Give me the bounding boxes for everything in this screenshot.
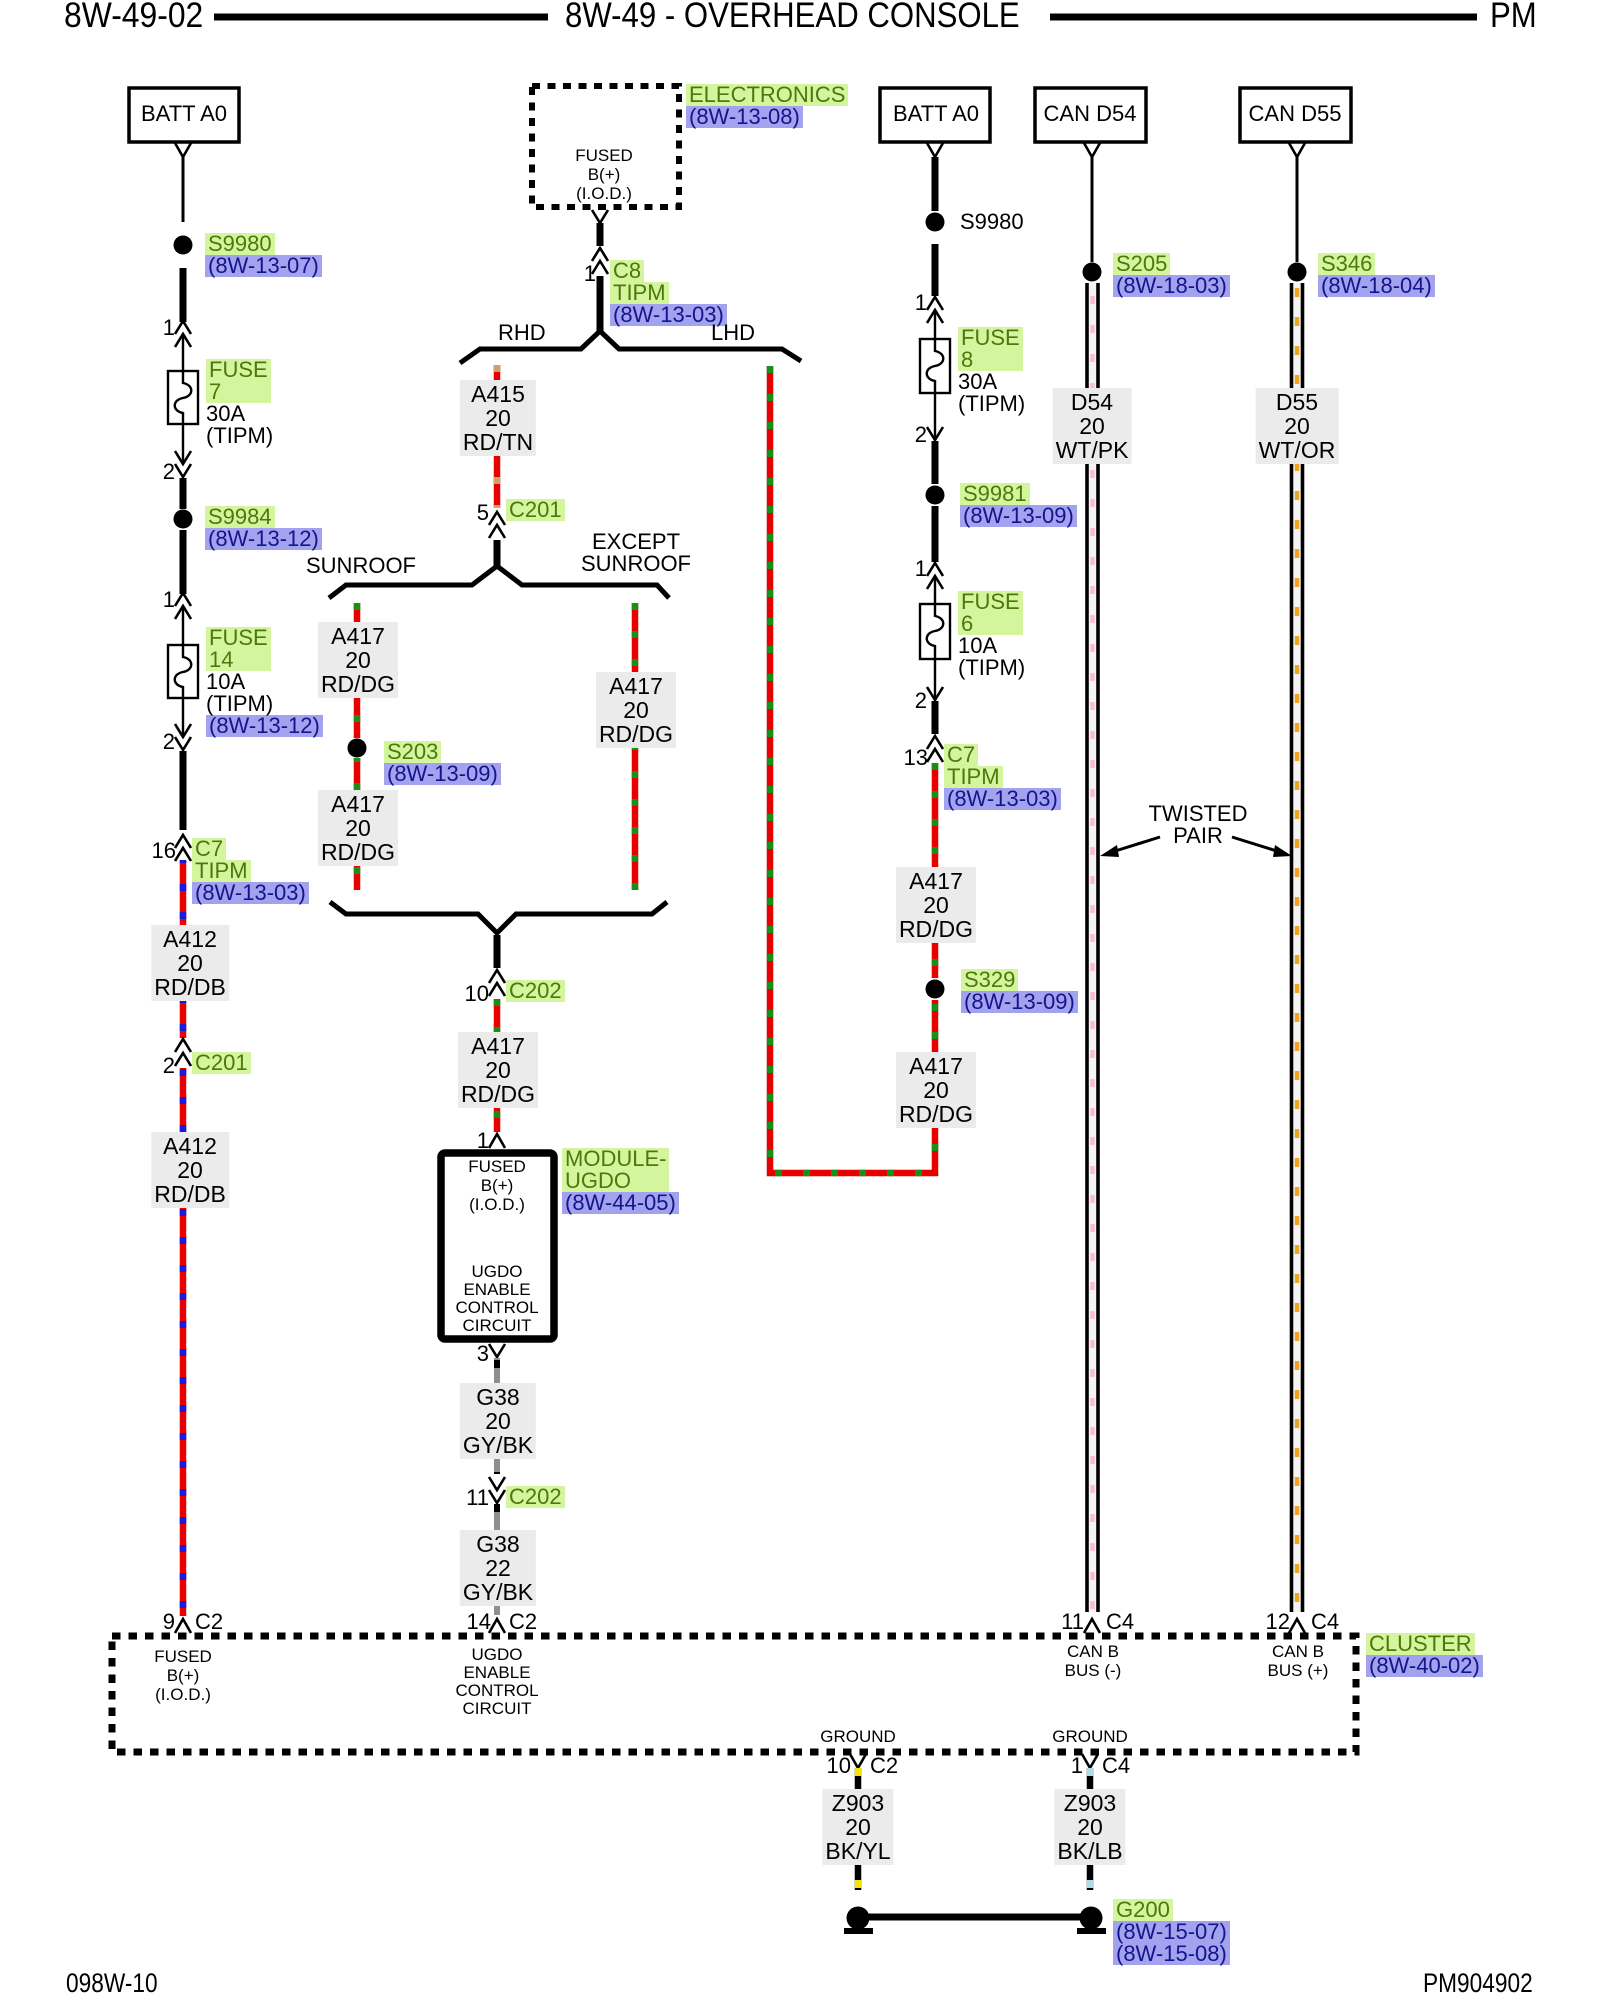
pin number 10 connector C202 xyxy=(465,983,489,1005)
label connector C201 left xyxy=(192,1052,251,1074)
wire label G38 20 GY/BK xyxy=(460,1383,536,1459)
wire pin 2 to splice S9984 xyxy=(180,478,187,509)
pin number 11 connector C4 xyxy=(1061,1611,1084,1633)
pin number 13 connector C7 right xyxy=(904,747,928,769)
connector C202 pin 11 chevrons down xyxy=(489,1477,505,1503)
wire into fuse 6 xyxy=(934,578,936,604)
label module ELECTRONICS (8W-13-08) xyxy=(686,84,848,128)
pin 2 chevron fuse 6 xyxy=(927,687,943,700)
fuse F6 xyxy=(920,604,950,659)
label FUSE 8 30A (TIPM) xyxy=(958,327,1025,415)
wire fuse 8 to pin 2 xyxy=(934,393,936,440)
label connector C4 pin 12 xyxy=(1311,1611,1339,1633)
wire D54 20 WT/PK twisted pair xyxy=(1087,283,1098,1612)
wire pin 2 to connector C7 pin 16 xyxy=(180,751,187,830)
pin number 2 fuse 7 xyxy=(163,461,175,483)
fuse F7 xyxy=(168,371,198,424)
label CAN D54 xyxy=(1044,103,1137,125)
wire LHD branch long run xyxy=(770,366,938,1173)
pin number 3 module UGDO xyxy=(477,1343,489,1365)
wire C8 to RHD/LHD split xyxy=(597,276,604,332)
connector box BATT A0 (right) xyxy=(880,88,990,142)
wire pin 2 to splice S9981 xyxy=(932,441,939,484)
header page number xyxy=(64,0,203,33)
pin 1 chevrons fuse 7 xyxy=(175,321,191,347)
label CAN D55 xyxy=(1249,103,1342,125)
pin number 2 fuse 6 xyxy=(915,690,927,712)
label connector C2 ground xyxy=(870,1755,898,1777)
pin number 10 connector C2 ground xyxy=(827,1755,851,1777)
wire fuse 14 to pin 2 xyxy=(182,698,184,737)
header rule right xyxy=(1050,14,1477,21)
wire label A417 20 RD/DG right lower xyxy=(896,1052,976,1128)
label BATT A0 right xyxy=(893,103,979,125)
node RHD xyxy=(498,322,546,344)
connector box BATT A0 (left) xyxy=(129,88,239,142)
header code PM xyxy=(1490,0,1537,33)
pin 2 chevrons fuse 7 xyxy=(175,451,191,477)
label splice S9981 (8W-13-09) xyxy=(960,483,1077,527)
connector C2 pin 9 chevron xyxy=(175,1619,191,1633)
wire A417 20 RD/DG to module xyxy=(494,999,501,1132)
label FUSE 14 10A (TIPM) (8W-13-12) xyxy=(206,627,323,737)
connector C8 pin 1 chevrons xyxy=(592,248,608,274)
wire label A417 20 RD/DG right upper xyxy=(896,867,976,943)
pin V GROUND C2 pin 10 xyxy=(850,1754,866,1768)
pin number 1 connector C4 ground xyxy=(1071,1755,1083,1777)
label connector C2 left xyxy=(195,1611,223,1633)
node EXCEPT SUNROOF xyxy=(581,531,691,575)
wire BATT A0 to splice S9980 right xyxy=(932,157,939,211)
module ELECTRONICS inner text FUSED B(+) (I.O.D.) xyxy=(575,146,633,203)
module pin 3 V xyxy=(489,1344,505,1357)
wire label A417 20 RD/DG sunroof lower xyxy=(318,790,398,866)
wire A417 20 RD/DG except-sunroof xyxy=(632,603,639,890)
pin number 1 fuse 14 xyxy=(163,589,175,611)
connector C2 pin 14 chevron xyxy=(489,1619,505,1633)
pin number 1 connector C8 xyxy=(584,263,596,285)
node LHD xyxy=(711,322,755,344)
module pin 1 chevron xyxy=(489,1134,505,1148)
wire label A412 20 RD/DB upper xyxy=(151,925,229,1001)
wire into fuse 14 xyxy=(182,608,184,645)
label splice S205 (8W-18-03) xyxy=(1113,253,1230,297)
node GROUND left xyxy=(820,1727,896,1746)
label connector C4 pin 11 xyxy=(1106,1611,1134,1633)
wire D55 20 WT/OR twisted pair xyxy=(1292,283,1303,1612)
wire S9981 to pin 1 fuse 6 xyxy=(932,506,939,562)
pin V below BATT A0 left xyxy=(175,143,191,157)
pin V below CAN D54 xyxy=(1084,143,1100,157)
label connector C8 TIPM (8W-13-03) xyxy=(610,260,727,326)
wire A417 20 RD/DG right upper xyxy=(932,763,939,978)
wire merge to C202 pin 10 xyxy=(494,935,501,968)
label MODULE-UGDO (8W-44-05) xyxy=(562,1148,679,1214)
label FUSE 6 10A (TIPM) xyxy=(958,591,1025,679)
splice S9980 left xyxy=(174,236,193,255)
wire A412 20 RD/DB lower xyxy=(180,1068,187,1616)
wire Z903 20 BK/LB xyxy=(1087,1768,1094,1890)
wire label A417 20 RD/DG to module xyxy=(458,1032,538,1108)
wire A417 20 RD/DG right lower xyxy=(932,1000,939,1176)
module box MODULE-UGDO xyxy=(441,1153,554,1339)
pin 1 chevrons fuse 8 xyxy=(927,297,943,323)
wire S9984 to pin 1 fuse 14 xyxy=(180,530,187,594)
header title xyxy=(565,0,1020,33)
wire A412 20 RD/DB upper xyxy=(180,860,187,1038)
fuse F14 xyxy=(168,645,198,698)
wire C201 to sunroof split xyxy=(494,540,501,567)
splice S9981 xyxy=(926,486,945,505)
connector C4 pin 11 chevron xyxy=(1084,1619,1100,1633)
label splice S346 (8W-18-04) xyxy=(1318,253,1435,297)
wire label D54 20 WT/PK xyxy=(1053,388,1132,464)
wire label A417 20 RD/DG sunroof upper xyxy=(318,622,398,698)
connector C201 pin 2 chevrons xyxy=(175,1039,191,1066)
twisted pair arrow left xyxy=(1100,837,1160,857)
module UGDO inner text FUSED B(+) (I.O.D.) xyxy=(468,1157,526,1214)
pin V below ELECTRONICS xyxy=(592,210,608,223)
wire A417 20 RD/DG sunroof upper xyxy=(354,603,361,738)
pin V below CAN D55 xyxy=(1289,143,1305,157)
pin number 2 connector C201 left xyxy=(163,1055,175,1077)
brace RHD/LHD split xyxy=(460,331,801,363)
wire label A417 20 RD/DG except-sunroof xyxy=(596,672,676,748)
connector C4 pin 12 chevron xyxy=(1289,1619,1305,1633)
ground G200 symbol right xyxy=(1077,1907,1106,1932)
cluster pin function CAN B BUS (-) xyxy=(1065,1642,1122,1680)
wire ELECTRONICS to pin 1 C8 xyxy=(597,223,604,246)
pin number 1 fuse 8 xyxy=(915,292,927,314)
wire CAN D54 to splice S205 xyxy=(1091,157,1094,262)
footer right xyxy=(1423,1970,1533,1997)
module box CLUSTER dashed xyxy=(112,1636,1356,1752)
wire G38 20 GY/BK xyxy=(494,1358,500,1474)
splice S346 xyxy=(1288,263,1307,282)
pin 1 chevrons fuse 6 xyxy=(927,563,943,589)
wire A415 20 RD/TN xyxy=(494,365,501,508)
connector C7 pin 13 chevrons xyxy=(927,736,943,762)
pin number 1 fuse 6 xyxy=(915,558,927,580)
node TWISTED PAIR xyxy=(1149,803,1248,847)
wire label Z903 20 BK/LB xyxy=(1054,1789,1125,1865)
wire fuse 6 to pin 2 xyxy=(934,659,936,700)
pin number 12 connector C4 xyxy=(1266,1611,1290,1633)
connector box CAN D55 xyxy=(1240,88,1351,142)
wire fuse 7 to pin 2 xyxy=(182,424,184,464)
node SUNROOF xyxy=(306,555,416,577)
wire ground bus bar xyxy=(858,1914,1091,1921)
label connector C4 ground xyxy=(1102,1755,1130,1777)
label splice S9984 xyxy=(205,506,322,550)
splice S205 xyxy=(1083,263,1102,282)
pin number 16 connector C7 xyxy=(152,840,176,862)
label splice S9980 right xyxy=(960,211,1024,233)
wire label Z903 20 BK/YL xyxy=(822,1789,893,1865)
ground G200 symbol left xyxy=(844,1907,873,1932)
label connector C202 lower xyxy=(506,1486,565,1508)
module box ELECTRONICS dashed xyxy=(532,86,679,207)
label connector C201 center xyxy=(506,499,565,521)
pin number 1 fuse 7 xyxy=(163,317,175,339)
pin number 9 connector C2 xyxy=(163,1611,175,1633)
splice S9984 xyxy=(174,510,193,529)
node GROUND right xyxy=(1052,1727,1128,1746)
splice S9980 right xyxy=(926,213,945,232)
pin number 5 connector C201 xyxy=(477,502,489,524)
pin 2 chevrons fuse 14 xyxy=(175,724,191,750)
splice S203 xyxy=(348,739,367,758)
brace merge below sunroof xyxy=(330,902,667,933)
wire S9980 to pin 1 fuse 8 xyxy=(932,244,939,296)
wire into fuse 7 xyxy=(182,336,184,371)
wire G38 22 GY/BK xyxy=(494,1504,500,1615)
wire label D55 20 WT/OR xyxy=(1256,388,1339,464)
label FUSE 7 30A (TIPM) xyxy=(206,359,273,447)
label splice S9980 left xyxy=(205,233,322,277)
wire into fuse 8 xyxy=(934,312,936,339)
label connector C2 center xyxy=(509,1611,537,1633)
wire pin 2 to connector C7 pin 13 xyxy=(932,701,939,734)
label splice S329 (8W-13-09) xyxy=(961,969,1078,1013)
wire A417 20 RD/DG sunroof lower xyxy=(354,758,361,890)
pin number 14 connector C2 xyxy=(467,1611,491,1633)
connector box CAN D54 xyxy=(1035,88,1146,142)
wire label A415 20 RD/TN xyxy=(460,380,536,456)
wire S9980 to pin 1 xyxy=(180,268,187,322)
label BATT A0 left xyxy=(141,103,227,125)
connector C201 pin 5 chevrons xyxy=(489,512,505,538)
label connector C7 TIPM (8W-13-03) left xyxy=(192,838,309,904)
pin V below BATT A0 right xyxy=(927,143,943,157)
pin number 2 fuse 8 xyxy=(915,424,927,446)
wire label G38 22 GY/BK xyxy=(460,1530,536,1606)
header rule left xyxy=(214,14,548,21)
module UGDO inner text UGDO ENABLE CONTROL CIRCUIT xyxy=(455,1263,538,1335)
footer left xyxy=(66,1970,158,1997)
splice S329 xyxy=(926,980,945,999)
pin number 11 connector C202 xyxy=(466,1487,489,1509)
cluster pin function CAN B BUS (+) xyxy=(1268,1642,1329,1680)
brace SUNROOF split xyxy=(329,566,669,598)
label splice S203 (8W-13-09) xyxy=(384,741,501,785)
cluster pin function UGDO ENABLE CONTROL CIRCUIT xyxy=(455,1646,538,1718)
fuse F8 xyxy=(920,339,950,393)
connector C202 pin 10 chevrons xyxy=(489,970,505,996)
label connector C202 xyxy=(506,980,565,1002)
label connector C7 TIPM (8W-13-03) right xyxy=(944,744,1061,810)
wire CAN D55 to splice S346 xyxy=(1296,157,1299,262)
pin number 2 fuse 14 xyxy=(163,731,175,753)
pin V GROUND C4 pin 1 xyxy=(1082,1754,1098,1768)
wire Z903 20 BK/YL xyxy=(855,1768,862,1890)
twisted pair arrow right xyxy=(1232,837,1292,857)
pin number 1 module UGDO xyxy=(477,1130,489,1152)
label ground G200 (8W-15-07) (8W-15-08) xyxy=(1113,1899,1230,1965)
connector C7 pin 16 chevrons xyxy=(175,835,191,861)
wire BATT A0 to splice S9980 xyxy=(182,157,185,222)
label module CLUSTER (8W-40-02) xyxy=(1366,1633,1483,1677)
cluster pin function FUSED B(+) (I.O.D.) xyxy=(154,1647,212,1704)
wire label A412 20 RD/DB lower xyxy=(151,1132,229,1208)
pin 1 chevrons fuse 14 xyxy=(175,593,191,619)
pin 2 chevron fuse 8 xyxy=(927,427,943,440)
